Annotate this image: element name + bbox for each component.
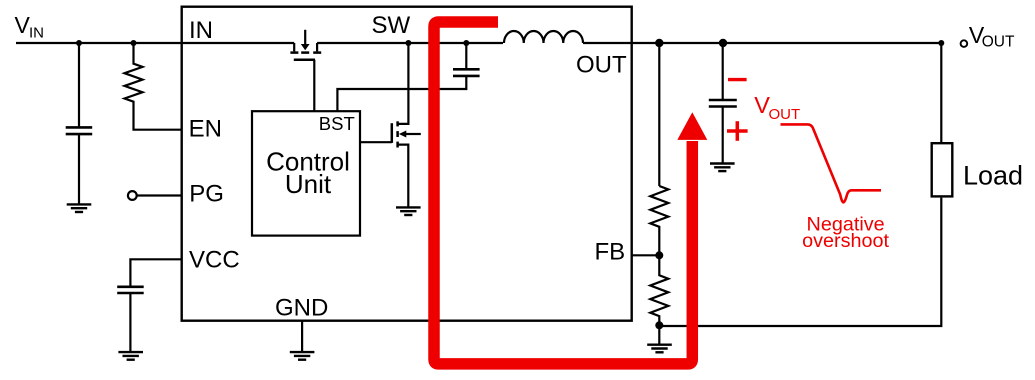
capacitor C2 (VCC bypass) xyxy=(117,287,144,352)
transistor Q2 (low-side MOSFET) xyxy=(392,121,421,147)
PG terminal circle xyxy=(128,191,137,200)
svg-text:IN: IN xyxy=(189,17,213,44)
wire: GND pin stem xyxy=(301,321,303,353)
node: Cout junction xyxy=(719,39,727,47)
svg-text:SW: SW xyxy=(372,12,411,39)
wire: output rail from inductor to load branch xyxy=(583,43,941,143)
wire: Q2 gate from control unit xyxy=(360,141,392,143)
wire: FB pin xyxy=(631,254,659,256)
wire: output return path through load xyxy=(659,198,941,326)
node: bootstrap junction xyxy=(463,40,469,46)
ground (GND pin) xyxy=(290,352,315,360)
inductor L1 xyxy=(504,31,583,43)
ground (divider) xyxy=(647,345,672,353)
node: SW xyxy=(405,40,411,46)
label VOUT xyxy=(969,22,1015,51)
wire: Q1 gate to control unit xyxy=(313,60,315,111)
wire: Cout branch xyxy=(722,43,724,100)
svg-text:GND: GND xyxy=(275,295,328,322)
node: FB junction xyxy=(655,251,663,259)
wire: feedback divider branch xyxy=(658,43,660,186)
red waveform: negative overshoot xyxy=(781,124,882,202)
node: load junction xyxy=(938,40,944,46)
svg-text:FB: FB xyxy=(595,238,626,265)
resistor R1 (EN pull-up) xyxy=(125,43,183,130)
wire: rail from Q1 drain to inductor xyxy=(317,42,503,44)
red plus sign (Cout polarity) xyxy=(727,121,748,141)
wire: input rail from VIN to Q1 source xyxy=(16,42,294,44)
capacitor C1 (input) xyxy=(66,43,93,204)
node: VIN cap junction xyxy=(76,40,82,46)
resistor R2 (divider top) xyxy=(650,186,668,255)
wire: PG pin xyxy=(137,194,182,196)
wire: Q2 source to ground xyxy=(398,145,409,208)
red minus sign (Cout polarity) xyxy=(728,78,747,81)
capacitor C4 (output) xyxy=(709,100,737,164)
IC module box U1 xyxy=(182,7,632,321)
ground (under C2) xyxy=(118,352,143,360)
svg-text:PG: PG xyxy=(189,181,224,208)
node: divider bottom junction xyxy=(655,321,663,329)
capacitor C3 (bootstrap) xyxy=(453,43,480,76)
ground (under C1) xyxy=(67,204,92,212)
svg-text:EN: EN xyxy=(189,116,222,143)
svg-text:OUT: OUT xyxy=(982,34,1015,51)
red current loop arrow xyxy=(434,22,707,364)
wire: VCC pin to C2 xyxy=(130,259,182,287)
red label: Negative overshoot xyxy=(802,214,889,252)
wire: Q2 drain to SW node xyxy=(398,43,409,124)
red label VOUT (waveform) xyxy=(754,92,800,123)
svg-text:overshoot: overshoot xyxy=(802,230,889,252)
resistor R3 (divider bottom) xyxy=(650,255,668,325)
control unit text xyxy=(266,146,350,199)
ground (Q2 source) xyxy=(396,207,421,215)
VOUT terminal circle xyxy=(961,40,968,47)
svg-text:Load: Load xyxy=(963,160,1023,190)
wire: divider ground stem xyxy=(658,325,660,344)
svg-text:OUT: OUT xyxy=(576,52,627,79)
transistor Q1 (high-side MOSFET) xyxy=(290,30,321,60)
label VIN xyxy=(15,12,45,42)
wire: BST net to C3 xyxy=(337,76,466,111)
node: EN resistor junction xyxy=(131,40,137,46)
ground (under C4) xyxy=(710,164,735,172)
svg-text:IN: IN xyxy=(29,24,44,41)
svg-text:OUT: OUT xyxy=(769,106,801,123)
node: divider top junction xyxy=(655,39,663,47)
svg-text:BST: BST xyxy=(319,113,355,134)
control unit block xyxy=(252,111,360,235)
svg-text:VCC: VCC xyxy=(189,247,240,274)
svg-text:Unit: Unit xyxy=(285,169,332,199)
load resistor xyxy=(932,143,953,196)
